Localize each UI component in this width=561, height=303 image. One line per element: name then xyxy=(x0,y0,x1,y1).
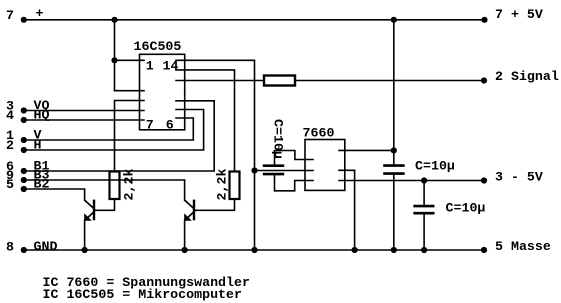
junction top rail x=393.8 xyxy=(391,17,397,23)
junction and terminal dots xyxy=(21,17,488,253)
wire Q1 emitter to ground xyxy=(84,221,86,251)
capacitor C3 plates xyxy=(413,206,434,213)
svg-text:C=10µ: C=10µ xyxy=(446,201,486,216)
wire C3 top to -5V xyxy=(423,181,425,205)
svg-text:C=10µ: C=10µ xyxy=(415,159,455,174)
wire U2 pin middle-right to Masse xyxy=(339,170,355,250)
junction +5V / U2 pin8 xyxy=(391,147,397,153)
node terminal HQ xyxy=(21,117,27,123)
wire C2 bottom to Masse xyxy=(393,175,395,250)
node terminal B2 xyxy=(21,186,27,192)
op-amp U2 7660 box xyxy=(305,140,345,191)
wire Signal right segment xyxy=(295,80,484,82)
node terminal Signal right xyxy=(481,77,487,83)
junction IC1 pin1 xyxy=(111,57,117,63)
wire B2 to Q1 collector xyxy=(24,189,85,200)
capacitor C1 plates xyxy=(263,166,284,174)
svg-text:+: + xyxy=(36,6,44,21)
wire IC1 left pin at y=90.7 xyxy=(115,90,145,92)
node terminal B1 xyxy=(21,168,27,174)
wire -5V line xyxy=(339,180,484,182)
wire Q1 base to R1 bottom xyxy=(95,199,115,210)
node terminal GND xyxy=(21,247,27,253)
wire +5V top rail xyxy=(24,19,485,21)
node terminal B3 xyxy=(21,177,27,183)
wire U2 pin lower-left to C1 bottom plate xyxy=(275,175,314,191)
svg-text:3 - 5V: 3 - 5V xyxy=(495,169,543,184)
wire Signal left segment xyxy=(176,80,264,82)
svg-text:4: 4 xyxy=(6,108,14,123)
junction Masse C2 xyxy=(391,247,397,253)
wire C3 bottom to Masse xyxy=(423,215,425,250)
wire Masse ground rail xyxy=(24,249,484,251)
wire IC1 pin 14 to ground vertical xyxy=(176,60,255,250)
junction Masse U2 xyxy=(352,247,358,253)
capacitor C2 plates xyxy=(383,166,405,174)
svg-text:14: 14 xyxy=(163,58,179,73)
wire +5V vertical to C2 top xyxy=(393,20,395,165)
resistor R2 2,2k xyxy=(230,172,240,200)
svg-text:6: 6 xyxy=(166,117,174,132)
svg-text:5 Masse: 5 Masse xyxy=(495,239,551,254)
svg-text:2,2k: 2,2k xyxy=(215,169,230,201)
svg-text:7 + 5V: 7 + 5V xyxy=(495,7,543,22)
transistor Q2 xyxy=(184,200,194,221)
wire VQ xyxy=(24,110,144,112)
node terminal V xyxy=(21,137,27,143)
wire B3 to Q2 collector xyxy=(24,180,185,200)
wire H from IC1 right pin xyxy=(24,110,204,151)
junction Masse C3 xyxy=(421,247,427,253)
svg-text:HQ: HQ xyxy=(34,108,50,123)
wire Q2 emitter to ground xyxy=(184,221,186,251)
junction -5V / C3 xyxy=(421,177,427,183)
wire U2 pin middle-left to ground vertical xyxy=(255,170,314,172)
wire +5V vertical drop to IC1 xyxy=(114,20,116,91)
svg-text:2: 2 xyxy=(6,138,14,153)
junction Masse Q1 emitter xyxy=(82,247,88,253)
wire IC1 left pin to R1 top xyxy=(115,101,145,172)
svg-text:7: 7 xyxy=(6,8,14,23)
wire U2 pin upper-left to C1 top plate xyxy=(275,151,314,165)
svg-text:8: 8 xyxy=(6,239,14,254)
node terminal pin7 + xyxy=(21,17,27,23)
node terminal H xyxy=(21,147,27,153)
wire IC1 pin 1 stub xyxy=(115,59,145,61)
node terminal +5V right xyxy=(481,17,487,23)
svg-text:GND: GND xyxy=(34,239,58,254)
svg-text:IC 16C505 = Mikrocomputer: IC 16C505 = Mikrocomputer xyxy=(43,287,243,302)
junction Masse Q2 emitter xyxy=(182,247,188,253)
resistor R3 signal series xyxy=(264,76,295,86)
svg-text:C=10µ: C=10µ xyxy=(270,119,285,159)
svg-text:1: 1 xyxy=(146,58,154,73)
junction Masse ground vertical xyxy=(251,247,257,253)
wire Q2 base to R2 bottom xyxy=(196,199,235,210)
svg-text:B2: B2 xyxy=(34,177,50,192)
svg-text:7: 7 xyxy=(146,117,154,132)
transistor Q1 xyxy=(84,200,94,221)
wire B1 from IC1 right pin xyxy=(24,101,214,171)
svg-text:16C505: 16C505 xyxy=(134,39,182,54)
svg-text:7660: 7660 xyxy=(303,125,335,140)
node terminal -5V right xyxy=(481,177,487,183)
junction top rail x=114.5 xyxy=(111,17,117,23)
svg-text:2 Signal: 2 Signal xyxy=(495,69,559,84)
svg-text:5: 5 xyxy=(6,177,14,192)
op-amp U1 16C505 box xyxy=(140,54,185,130)
wire HQ xyxy=(24,119,144,121)
node terminal Masse right xyxy=(481,247,487,253)
junction ground vertical / U2 xyxy=(251,167,257,173)
node terminal VQ xyxy=(21,107,27,113)
svg-text:H: H xyxy=(34,138,42,153)
wire IC1 right pin to R2 top xyxy=(176,70,235,172)
wire V from IC1 right pin xyxy=(24,118,194,140)
wire U2 pin upper-right to +5V vertical xyxy=(339,149,394,151)
svg-text:2,2k: 2,2k xyxy=(122,169,137,201)
resistor R1 2,2k xyxy=(110,172,120,200)
